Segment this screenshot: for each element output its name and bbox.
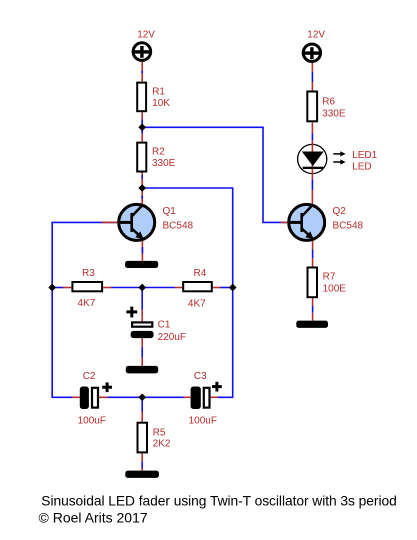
svg-text:12V: 12V [307, 29, 325, 40]
svg-text:© Roel Arits 2017: © Roel Arits 2017 [39, 510, 148, 526]
svg-text:BC548: BC548 [163, 220, 194, 231]
svg-text:BC548: BC548 [333, 220, 364, 231]
svg-text:R6: R6 [322, 97, 335, 108]
svg-text:100E: 100E [323, 284, 347, 295]
svg-text:Q2: Q2 [333, 206, 347, 217]
svg-text:Sinusoidal LED fader using Twi: Sinusoidal LED fader using Twin-T oscill… [41, 493, 396, 508]
svg-text:4K7: 4K7 [78, 298, 96, 309]
svg-text:Q1: Q1 [163, 206, 177, 217]
svg-text:R3: R3 [82, 268, 95, 279]
svg-text:100uF: 100uF [189, 416, 217, 427]
svg-text:LED: LED [352, 162, 371, 173]
svg-text:C3: C3 [194, 371, 207, 382]
svg-text:100uF: 100uF [78, 416, 106, 427]
svg-text:220uF: 220uF [158, 332, 186, 343]
svg-text:R7: R7 [323, 272, 336, 283]
svg-text:C2: C2 [83, 371, 96, 382]
svg-text:R2: R2 [152, 146, 165, 157]
svg-text:R5: R5 [153, 428, 166, 439]
svg-text:R4: R4 [194, 268, 207, 279]
svg-text:330E: 330E [152, 158, 176, 169]
svg-text:330E: 330E [322, 109, 346, 120]
svg-text:2K2: 2K2 [153, 439, 171, 450]
svg-text:R1: R1 [152, 86, 165, 97]
svg-text:4K7: 4K7 [188, 299, 206, 310]
svg-text:10K: 10K [152, 98, 170, 109]
svg-text:C1: C1 [158, 320, 171, 331]
svg-text:LED1: LED1 [352, 150, 377, 161]
svg-text:12V: 12V [137, 29, 155, 40]
